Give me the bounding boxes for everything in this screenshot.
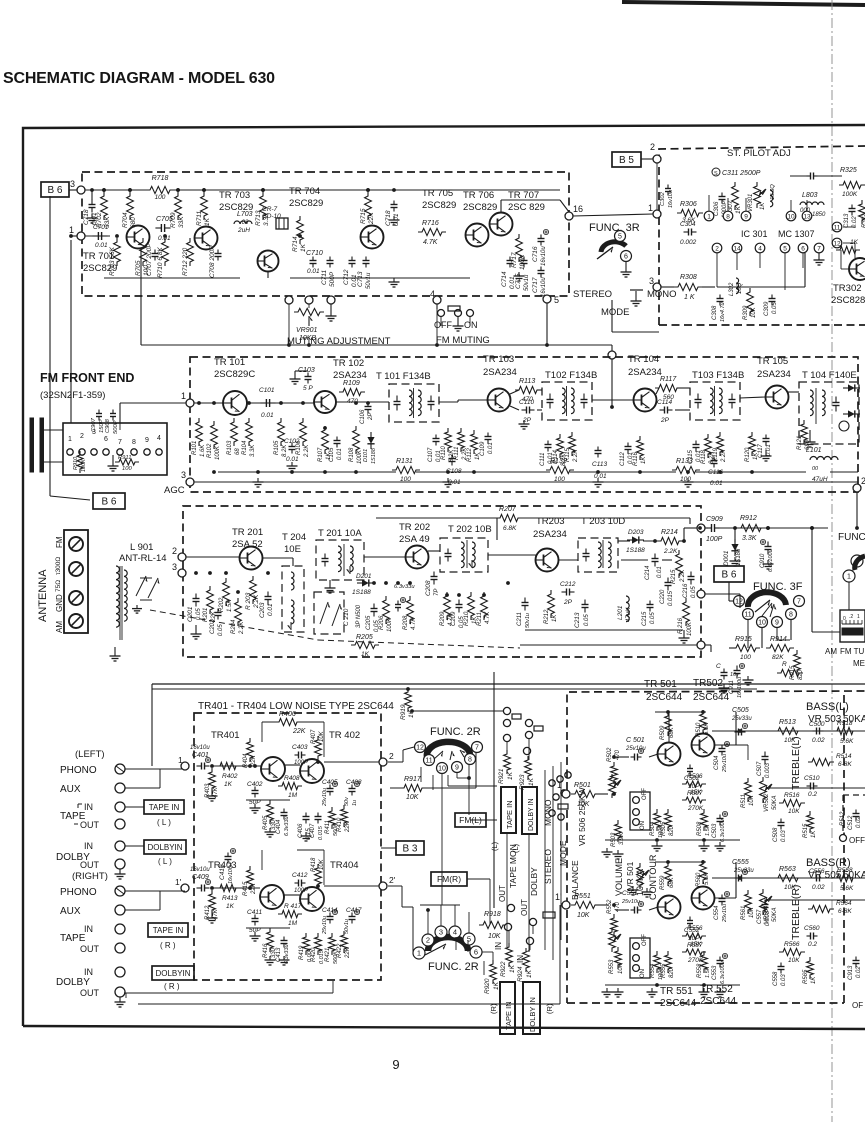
svg-text:PHONO: PHONO — [60, 765, 97, 776]
svg-text:10K: 10K — [406, 794, 419, 801]
ground jacks R — [119, 998, 121, 1002]
svg-text:2P: 2P — [660, 417, 670, 424]
svg-text:100KA: 100KA — [635, 869, 645, 896]
resistor R421 — [329, 933, 336, 955]
svg-text:TR 102: TR 102 — [333, 358, 364, 369]
svg-text:0.05: 0.05 — [650, 612, 656, 624]
resistor R407 — [315, 736, 322, 760]
capacitor C205 — [373, 604, 375, 609]
terminal 2 mpx — [653, 155, 661, 163]
svg-text:R101: R101 — [192, 441, 198, 455]
svg-text:1: 1 — [417, 949, 421, 958]
svg-text:C306: C306 — [714, 201, 720, 216]
transistor TR101 — [223, 391, 247, 415]
svg-text:2SC 829: 2SC 829 — [508, 202, 545, 213]
svg-text:50v1u: 50v1u — [344, 919, 350, 934]
resistor R203 — [250, 576, 257, 604]
svg-text:TR 701: TR 701 — [83, 251, 114, 262]
resistor R405 — [267, 800, 274, 824]
terminal 5 — [543, 295, 551, 303]
capacitor C714 — [509, 257, 511, 261]
FUNC 3F contact 9 — [772, 617, 783, 628]
tone emitter rail lower — [605, 984, 740, 986]
svg-text:0.02: 0.02 — [812, 884, 825, 891]
svg-text:6.8K: 6.8K — [503, 525, 517, 532]
svg-text:C417: C417 — [346, 907, 362, 914]
svg-text:FUNC. 3R: FUNC. 3R — [589, 222, 640, 234]
svg-text:3.3K: 3.3K — [742, 535, 757, 542]
svg-text:2SC644: 2SC644 — [693, 692, 730, 703]
svg-text:R419: R419 — [299, 945, 305, 960]
terminal 16 — [565, 212, 573, 220]
outer border — [23, 125, 865, 1026]
svg-text:C203: C203 — [259, 602, 266, 618]
svg-text:C554: C554 — [714, 905, 720, 920]
resistor R924 — [523, 948, 530, 972]
svg-text:3: 3 — [181, 470, 186, 480]
svg-text:C101: C101 — [259, 387, 275, 394]
terminal 1 tone — [562, 790, 570, 798]
svg-text:DOLBY: DOLBY — [56, 977, 90, 988]
svg-text:0.05: 0.05 — [196, 608, 202, 620]
svg-text:2: 2 — [426, 936, 430, 945]
transistor TR701 — [127, 226, 150, 249]
svg-text:820: 820 — [669, 825, 675, 836]
wire preamp rail L — [211, 765, 261, 767]
terminal 3 fmif — [186, 478, 194, 486]
resistor R413 — [216, 884, 240, 891]
tone dashed box — [567, 691, 865, 790]
capacitor C220 — [667, 578, 669, 583]
svg-text:DOLBY IN: DOLBY IN — [528, 798, 535, 831]
svg-text:C215: C215 — [642, 611, 648, 626]
transistor TR702 — [258, 251, 279, 272]
coil L703 — [234, 221, 252, 224]
grounds tone upper — [656, 842, 658, 846]
svg-text:C510: C510 — [804, 775, 820, 782]
svg-text:L703: L703 — [237, 211, 253, 218]
svg-text:2': 2' — [389, 875, 396, 885]
resistor R207 — [496, 514, 522, 521]
svg-text:8: 8 — [789, 612, 793, 619]
svg-text:1S188: 1S188 — [371, 447, 377, 464]
transformer T104 — [799, 382, 859, 444]
junction dots fmif rail — [212, 470, 216, 474]
svg-text:1: 1 — [68, 436, 72, 443]
switch mode — [630, 289, 643, 291]
resistor R915b — [794, 650, 801, 674]
svg-text:25v10u: 25v10u — [322, 788, 328, 807]
FUNC 2R lower contact 4 — [449, 926, 461, 938]
capacitor C705 — [155, 227, 161, 229]
switch contacts col2 — [504, 923, 511, 930]
svg-text:R406: R406 — [279, 711, 296, 718]
svg-text:B 3: B 3 — [402, 844, 417, 855]
capacitor C101 — [260, 402, 266, 404]
svg-text:VR 501: VR 501 — [625, 861, 635, 890]
capacitor C113 — [597, 447, 599, 451]
resistor R120 — [749, 432, 756, 456]
resistor R114 — [557, 434, 564, 458]
resistor R518 — [833, 727, 857, 734]
svg-text:10: 10 — [787, 213, 795, 220]
preamp feedback R — [297, 849, 324, 851]
svg-text:R915: R915 — [735, 636, 752, 643]
resistor R312 — [859, 200, 865, 224]
svg-text:C503: C503 — [712, 823, 718, 838]
capacitor C718a — [91, 200, 93, 205]
svg-text:R214: R214 — [661, 529, 678, 536]
capacitor C309 — [771, 295, 773, 299]
capacitor C109 — [487, 433, 489, 437]
wire TR202 to T202 — [428, 550, 440, 552]
jack AUX L — [115, 783, 125, 793]
ground am left — [195, 630, 197, 634]
wire frontend to fmif — [120, 402, 186, 404]
terminal 1 preamp — [181, 762, 189, 770]
svg-text:0.02: 0.02 — [856, 816, 862, 828]
svg-text:0.01: 0.01 — [657, 566, 663, 578]
svg-text:C405: C405 — [322, 779, 338, 786]
svg-text:CONTOUR: CONTOUR — [648, 854, 658, 900]
FUNC 2R upper contact 12 — [415, 742, 426, 753]
preamp emitter rails — [246, 799, 290, 801]
svg-text:R212: R212 — [544, 609, 550, 624]
resistor R419 — [303, 933, 310, 955]
svg-text:4.7K: 4.7K — [411, 617, 417, 630]
resistor R501 tone — [571, 790, 599, 797]
svg-text:50v1u: 50v1u — [524, 274, 530, 291]
svg-text:R215: R215 — [671, 569, 677, 584]
svg-text:TR 551: TR 551 — [660, 986, 693, 997]
svg-text:0.002: 0.002 — [680, 239, 697, 246]
capacitor C507 — [764, 752, 766, 757]
capacitor C412 — [295, 882, 299, 884]
svg-text:22K: 22K — [345, 946, 351, 959]
svg-text:1K: 1K — [811, 976, 817, 984]
svg-text:25v10u: 25v10u — [722, 904, 728, 923]
svg-text:50v1u: 50v1u — [525, 613, 531, 628]
screw terminal FM — [69, 537, 83, 551]
resistor R711 — [201, 192, 208, 220]
svg-text:IC 301: IC 301 — [741, 229, 768, 239]
capacitor C504 — [721, 745, 723, 749]
wire supply rail top — [152, 683, 865, 685]
FUNC 2R upper contact 7 — [472, 742, 483, 753]
capacitor C510 — [807, 785, 811, 787]
svg-text:2.2K: 2.2K — [239, 621, 245, 635]
svg-text:R413: R413 — [222, 895, 238, 902]
resistor R107 — [322, 426, 329, 454]
svg-text:16v100u: 16v100u — [737, 677, 743, 698]
svg-text:FM MUTING: FM MUTING — [436, 335, 490, 346]
svg-text:R563: R563 — [779, 866, 796, 873]
wire preamp TR401 TR402 — [285, 764, 300, 766]
svg-text:9: 9 — [744, 213, 748, 220]
resistor R525 — [777, 669, 803, 676]
pot VR502 — [760, 777, 767, 803]
svg-text:R511: R511 — [741, 794, 747, 808]
svg-text:0.01: 0.01 — [766, 444, 772, 456]
capacitor C909 — [707, 527, 712, 529]
svg-text:R110: R110 — [441, 445, 447, 460]
svg-text:R306: R306 — [680, 201, 697, 208]
svg-text:R554: R554 — [650, 963, 656, 978]
svg-text:2SC644: 2SC644 — [646, 692, 683, 703]
wires func2r lower contacts up — [427, 910, 429, 934]
svg-text:4: 4 — [453, 928, 457, 937]
svg-text:0.03: 0.03 — [781, 830, 787, 842]
ground VR901 — [330, 312, 332, 316]
svg-text:14: 14 — [733, 245, 741, 252]
resistor R923 — [525, 756, 532, 780]
svg-text:AGC: AGC — [164, 485, 185, 496]
jack AUX R — [115, 905, 125, 915]
wire T202 to TR203 — [488, 554, 536, 556]
svg-text:ANTENNA: ANTENNA — [37, 569, 49, 622]
svg-text:R515: R515 — [803, 823, 809, 838]
svg-text:T102 F134B: T102 F134B — [545, 370, 597, 381]
svg-text:16v10u: 16v10u — [541, 277, 547, 297]
resistor R115 — [569, 432, 576, 456]
tone supply rail lower — [655, 861, 706, 863]
gang link dashed — [150, 610, 318, 640]
capacitor C713 — [365, 257, 367, 261]
svg-text:6: 6 — [801, 245, 805, 252]
svg-text:1M: 1M — [288, 792, 298, 799]
resistor R560 — [700, 860, 707, 884]
svg-text:R405: R405 — [263, 815, 269, 830]
wire func3f down — [761, 628, 763, 648]
wire tone out to right — [714, 744, 736, 746]
capacitor C500 — [813, 730, 817, 732]
svg-text:TR 103: TR 103 — [483, 354, 514, 365]
svg-text:100: 100 — [155, 194, 166, 201]
svg-text:TR 501: TR 501 — [644, 679, 677, 690]
svg-text:0.01: 0.01 — [594, 473, 607, 480]
svg-text:22K: 22K — [368, 212, 375, 225]
svg-text:16v10u: 16v10u — [541, 246, 547, 266]
svg-text:TR 707: TR 707 — [508, 190, 539, 201]
capacitor C559 — [813, 877, 817, 879]
terminal 1' preamp — [181, 884, 189, 892]
capacitor C302 — [667, 185, 669, 189]
svg-text:C713: C713 — [357, 271, 364, 287]
svg-text:3P N500: 3P N500 — [356, 604, 362, 628]
svg-text:2SA 52: 2SA 52 — [232, 539, 263, 550]
transistor TR403 — [260, 885, 284, 909]
wire R113 to T102 — [537, 389, 542, 391]
svg-text:R204: R204 — [231, 619, 237, 634]
ground under FUNC 3R — [625, 268, 627, 272]
capacitor C555 — [735, 877, 739, 879]
wire B6 to pin 3 — [69, 189, 77, 191]
capacitor C102 — [291, 443, 293, 447]
muting terminals — [285, 296, 293, 304]
svg-text:C107: C107 — [428, 447, 434, 462]
svg-text:T 104 F140E: T 104 F140E — [802, 370, 857, 381]
pot VR301 — [754, 182, 761, 208]
capacitor C203 — [267, 592, 269, 597]
ground under C718a — [91, 214, 93, 218]
resistor R112 — [471, 430, 478, 454]
box DOLBY IN L — [144, 840, 186, 854]
svg-text:DOLBYIN: DOLBYIN — [147, 843, 182, 852]
svg-text:33K: 33K — [178, 216, 185, 228]
svg-text:C105: C105 — [329, 447, 335, 462]
svg-text:6-8K: 6-8K — [838, 908, 852, 915]
resistor R553 — [615, 947, 622, 969]
wire preamp TR403 TR404 — [284, 894, 300, 896]
resistor R308 — [674, 283, 702, 290]
svg-text:0.05: 0.05 — [772, 302, 778, 314]
ground T104 — [809, 438, 811, 442]
resistor R516 — [779, 799, 805, 806]
junction dots C909 bus — [698, 526, 702, 530]
svg-text:T 204: T 204 — [282, 532, 306, 543]
svg-text:S: S — [714, 171, 718, 177]
grounds tone lower — [651, 988, 653, 992]
wire muting drop — [611, 345, 613, 407]
svg-text:AUX: AUX — [60, 784, 81, 795]
svg-text:1K: 1K — [552, 614, 558, 622]
screw terminal AM — [69, 614, 83, 628]
wire tape L — [125, 806, 144, 808]
transistor TR703 — [195, 227, 218, 250]
resistor 1K TR302 — [836, 246, 860, 253]
transistor TR302 — [849, 258, 865, 280]
svg-text:FUNC: FUNC — [838, 532, 865, 543]
capacitor C111 — [547, 441, 549, 445]
transistor TR707 — [490, 213, 513, 236]
resistor R416 — [267, 928, 274, 952]
svg-text:2uH: 2uH — [237, 227, 250, 234]
transistor TR105 — [766, 386, 789, 409]
svg-text:T 202 10B: T 202 10B — [448, 524, 492, 535]
svg-text:0: 0 — [843, 616, 846, 622]
capacitor C311 — [807, 175, 811, 177]
svg-text:.2: .2 — [849, 614, 853, 620]
transistor TR501 — [658, 743, 681, 766]
wire collector TR707 to pin16 — [500, 200, 502, 212]
junction dots IF rail — [102, 188, 106, 192]
resistor R208 — [407, 596, 414, 624]
capacitor C716 — [540, 235, 542, 239]
svg-text:0.01: 0.01 — [286, 456, 299, 463]
svg-text:R911: R911 — [118, 455, 131, 461]
svg-text:16v10u: 16v10u — [190, 745, 210, 751]
svg-text:T 201 10A: T 201 10A — [318, 528, 362, 539]
svg-text:R504: R504 — [650, 821, 656, 836]
preamp dashed box — [194, 713, 381, 980]
capacitor C114 — [660, 409, 665, 411]
svg-text:0.01: 0.01 — [261, 412, 274, 419]
svg-text:R510: R510 — [696, 722, 702, 737]
wire TR102 to T101 — [336, 401, 389, 403]
svg-text:C403: C403 — [292, 744, 308, 751]
ground IF mid — [393, 278, 395, 282]
wire am osc top — [430, 517, 499, 519]
svg-text:C109: C109 — [480, 441, 486, 456]
svg-text:5.6K: 5.6K — [704, 722, 710, 735]
svg-text:25v10u: 25v10u — [722, 754, 728, 773]
resistor R919 — [405, 688, 412, 712]
svg-text:100: 100 — [122, 466, 132, 472]
svg-text:( R ): ( R ) — [164, 982, 180, 991]
svg-text:TAPE IN: TAPE IN — [504, 1001, 513, 1030]
svg-text:2: 2 — [715, 245, 719, 252]
capacitor C413 — [283, 937, 285, 941]
svg-text:(RIGHT): (RIGHT) — [72, 871, 108, 882]
svg-text:OF: OF — [852, 1001, 863, 1010]
svg-text:C708 200P: C708 200P — [209, 245, 216, 278]
svg-text:R211: R211 — [477, 612, 483, 626]
resistor R559 — [665, 862, 672, 886]
svg-text:R 417: R 417 — [284, 903, 302, 910]
svg-text:25v10u: 25v10u — [322, 916, 328, 935]
svg-text:100: 100 — [554, 476, 565, 483]
svg-text:R: R — [782, 661, 787, 668]
svg-text:1K: 1K — [735, 205, 742, 214]
svg-text:R711: R711 — [196, 211, 203, 226]
svg-text:C910: C910 — [760, 553, 766, 568]
wire tone input lower — [595, 904, 608, 906]
svg-text:IN: IN — [494, 942, 503, 950]
svg-text:OUT: OUT — [80, 944, 100, 954]
svg-text:R552: R552 — [607, 899, 613, 914]
capacitor C105 — [336, 437, 338, 441]
capacitor C201 — [195, 594, 197, 599]
wire aux L — [125, 787, 160, 789]
svg-text:R566: R566 — [784, 941, 800, 948]
svg-text:4.7K: 4.7K — [423, 239, 438, 246]
svg-text:100P: 100P — [294, 888, 308, 894]
svg-text:C: C — [716, 663, 721, 670]
svg-text:100: 100 — [400, 476, 411, 483]
svg-text:C304: C304 — [680, 221, 696, 228]
svg-text:100P: 100P — [706, 536, 723, 543]
svg-text:0.05: 0.05 — [691, 586, 697, 598]
svg-text:0.015: 0.015 — [318, 825, 324, 840]
svg-text:D101: D101 — [363, 449, 369, 462]
capacitor C409 — [197, 887, 202, 889]
svg-text:AUX: AUX — [60, 906, 81, 917]
svg-text:MONO: MONO — [647, 289, 677, 300]
resistor R718 — [146, 186, 174, 193]
svg-text:C309: C309 — [764, 301, 770, 316]
ground T201 — [329, 584, 331, 588]
resistor R566 — [779, 948, 805, 955]
resistor R415 — [247, 866, 254, 890]
svg-text:R917: R917 — [404, 776, 422, 783]
svg-text:1u: 1u — [352, 800, 358, 806]
transistor TR104 — [634, 389, 657, 412]
svg-text:R713: R713 — [255, 210, 262, 226]
svg-text:R557: R557 — [687, 942, 703, 949]
svg-text:R513: R513 — [779, 719, 796, 726]
svg-text:2SA234: 2SA234 — [483, 367, 517, 378]
resistor R508 — [701, 809, 708, 831]
svg-text:FM: FM — [55, 536, 64, 548]
svg-text:1K: 1K — [224, 781, 233, 788]
svg-text:SCHEMATIC DIAGRAM - MODEL 630: SCHEMATIC DIAGRAM - MODEL 630 — [3, 70, 275, 87]
capacitor C103 — [307, 373, 309, 377]
svg-text:C718: C718 — [385, 210, 392, 226]
wire supply rail 2 — [152, 688, 757, 690]
capacitor C554 — [721, 895, 723, 899]
switch box upper — [630, 792, 650, 830]
capacitor C208 — [433, 572, 435, 577]
